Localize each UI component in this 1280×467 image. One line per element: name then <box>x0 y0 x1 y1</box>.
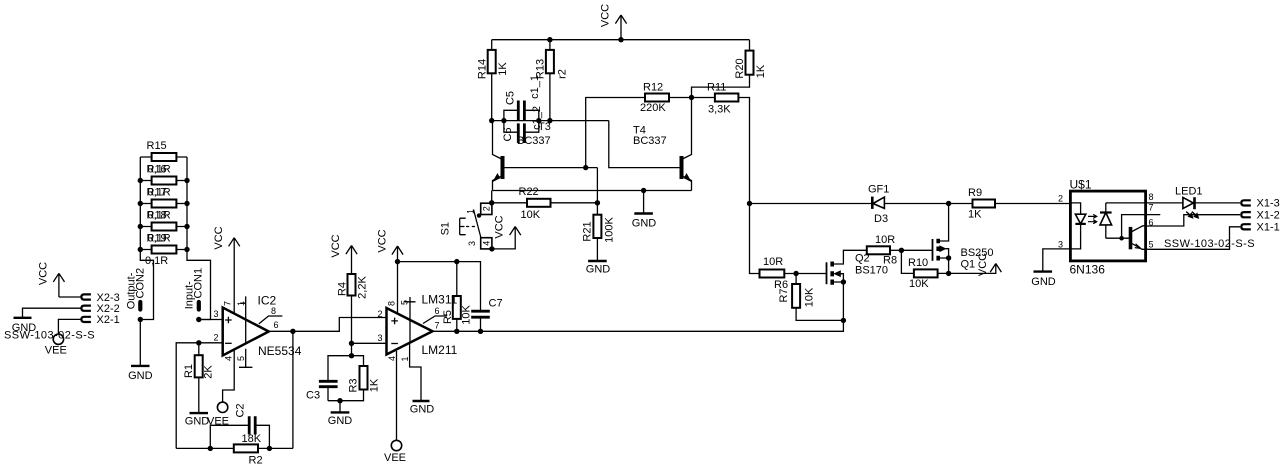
svg-text:R3: R3 <box>347 378 359 392</box>
svg-text:R7: R7 <box>778 288 790 302</box>
svg-text:Q1: Q1 <box>961 259 976 271</box>
node CON1 junction <box>196 317 201 322</box>
internal photodiode <box>1105 203 1107 238</box>
svg-text:S1: S1 <box>440 222 452 235</box>
power symbol VCC (S1) <box>492 215 521 249</box>
transistor Q2 BS170 <box>796 250 888 320</box>
svg-text:R14: R14 <box>476 59 488 79</box>
transistor T3 BC337 <box>493 121 598 191</box>
node R5 top junction <box>454 259 459 264</box>
wire X2-1 to VEE <box>58 319 81 334</box>
svg-text:7: 7 <box>435 321 440 331</box>
svg-text:r2: r2 <box>556 69 568 79</box>
svg-text:10K: 10K <box>521 209 541 221</box>
wire to C3/R3 <box>351 343 353 355</box>
svg-text:GND: GND <box>185 416 210 428</box>
svg-text:X1-2: X1-2 <box>1257 210 1280 222</box>
svg-text:X2-2: X2-2 <box>97 303 120 315</box>
node Q1 bulk junction <box>946 255 951 260</box>
capacitor C3 <box>306 356 352 402</box>
svg-text:D3: D3 <box>874 213 888 225</box>
node D3 left junction <box>747 201 752 206</box>
wire cap rail <box>492 120 609 122</box>
svg-text:1K: 1K <box>497 62 509 76</box>
node T3 collector junction <box>489 118 494 123</box>
wire LM211 -in <box>352 342 387 344</box>
svg-text:CON1: CON1 <box>193 268 205 299</box>
svg-text:18K: 18K <box>242 433 262 445</box>
svg-text:0,1R: 0,1R <box>148 163 171 175</box>
svg-text:VEE: VEE <box>45 345 67 357</box>
ground symbol GND (R1) <box>190 412 209 414</box>
node R2 left junction <box>208 446 213 451</box>
svg-text:T3: T3 <box>538 121 551 133</box>
power symbol VCC (top rail) <box>599 4 626 40</box>
svg-text:R8: R8 <box>883 255 897 267</box>
resistor R9 <box>949 187 1070 221</box>
svg-text:X2-1: X2-1 <box>97 314 120 326</box>
node C3/R3 top junction <box>349 353 354 358</box>
svg-text:GND: GND <box>632 218 657 230</box>
node IC2 output junction <box>290 329 295 334</box>
svg-text:0,1R: 0,1R <box>148 209 171 221</box>
node emitter GND junction <box>641 188 646 193</box>
wire feedback bottom rail <box>176 447 293 449</box>
svg-text:GND: GND <box>1031 276 1056 288</box>
transistor T4 BC337 <box>609 98 692 191</box>
wire ladder right rail <box>187 157 211 320</box>
svg-text:5: 5 <box>1149 239 1154 249</box>
svg-text:GND: GND <box>128 370 153 382</box>
svg-text:BC337: BC337 <box>517 135 551 147</box>
resistor R8 <box>867 234 902 267</box>
node R8/R10/Q1-gate junction <box>899 248 904 253</box>
svg-text:4: 4 <box>482 241 492 246</box>
svg-text:R10: R10 <box>908 257 928 269</box>
svg-text:8: 8 <box>387 301 397 306</box>
svg-text:C7: C7 <box>489 298 503 310</box>
supply symbol VEE (IC2 pin4) <box>217 402 227 412</box>
wire LM211 output <box>433 320 844 331</box>
svg-text:7: 7 <box>1149 202 1154 212</box>
svg-text:R21: R21 <box>581 221 593 241</box>
svg-text:0,1R: 0,1R <box>145 255 168 267</box>
svg-text:3,3K: 3,3K <box>708 104 731 116</box>
svg-text:X2-3: X2-3 <box>97 292 120 304</box>
svg-text:c1_1: c1_1 <box>529 75 541 99</box>
svg-text:SSW-103-02-S-S: SSW-103-02-S-S <box>1164 238 1255 250</box>
svg-text:4: 4 <box>224 356 234 361</box>
ground symbol GND (C3/R3) <box>331 401 350 413</box>
node Q1 top junction <box>946 201 951 206</box>
svg-text:GF1: GF1 <box>868 184 889 196</box>
wire CON2 to GND <box>139 320 141 366</box>
svg-text:10K: 10K <box>909 278 929 290</box>
svg-text:7: 7 <box>223 301 233 306</box>
resistor R5 <box>442 262 473 332</box>
wire IC2 -in <box>176 343 222 449</box>
wire top VCC rail <box>492 39 750 41</box>
wire D3 rail <box>750 203 949 205</box>
node IC2 -in junction <box>196 340 201 345</box>
resistor R21 <box>581 203 615 261</box>
svg-text:8: 8 <box>1149 192 1154 202</box>
ground symbol GND (6N136 pin3) <box>1031 249 1070 288</box>
node R13 bottom junction <box>547 118 552 123</box>
resistor R3 <box>328 356 380 401</box>
wire pin6 to X1-2 <box>1146 215 1241 226</box>
resistor R15 <box>140 140 187 161</box>
svg-text:VCC: VCC <box>977 253 989 276</box>
svg-text:100K: 100K <box>603 216 615 242</box>
wire CON1 to IC2 +in <box>199 319 222 321</box>
resistor R16 <box>140 163 187 184</box>
resistor R22 <box>492 186 598 221</box>
svg-text:C6: C6 <box>502 127 514 141</box>
connector pin X1-2 <box>1241 212 1251 217</box>
svg-text:6: 6 <box>274 320 279 330</box>
resistor R20 <box>692 40 767 98</box>
svg-text:BC337: BC337 <box>633 135 667 147</box>
svg-text:VCC: VCC <box>493 215 505 238</box>
capacitor C5 <box>504 75 541 121</box>
svg-text:LED1: LED1 <box>1175 185 1203 197</box>
transistor Q1 BS250 <box>901 204 993 274</box>
power symbol VCC (Q1) <box>949 253 1002 276</box>
svg-text:X1-1: X1-1 <box>1257 222 1280 234</box>
svg-text:SSW-103-02-S-S: SSW-103-02-S-S <box>4 330 95 342</box>
svg-text:5: 5 <box>400 300 410 305</box>
svg-text:10K: 10K <box>803 287 815 307</box>
svg-text:C2: C2 <box>234 403 246 417</box>
capacitor C6 <box>502 106 543 143</box>
resistor R10 <box>901 250 948 290</box>
svg-text:R12: R12 <box>643 82 663 94</box>
svg-text:NE5534: NE5534 <box>258 344 302 358</box>
node R4 bottom junction <box>349 341 354 346</box>
op-amp IC2 <box>213 251 301 402</box>
ground symbol GND (CON2) <box>131 365 150 367</box>
junction dots ladder <box>138 178 190 252</box>
svg-text:VCC: VCC <box>376 229 388 252</box>
resistor R1 <box>183 343 215 413</box>
svg-text:3: 3 <box>1058 239 1063 249</box>
svg-text:1K: 1K <box>755 64 767 78</box>
node Q2 source/bulk junction <box>841 279 846 284</box>
svg-text:C5: C5 <box>504 91 516 105</box>
resistor R4 <box>336 274 368 343</box>
svg-text:2: 2 <box>1058 193 1063 203</box>
svg-text:VEE: VEE <box>384 452 406 464</box>
svg-text:8: 8 <box>271 306 276 316</box>
svg-text:C3: C3 <box>306 389 320 401</box>
svg-text:U$1: U$1 <box>1070 178 1092 192</box>
power symbol VCC (R4) <box>330 234 357 274</box>
node S1/R22 junction <box>489 200 494 205</box>
wire X2-3 to VCC <box>59 296 81 298</box>
supply symbol VEE (X2-1) <box>53 334 63 344</box>
resistor R18 <box>140 209 187 230</box>
power symbol VCC (LM211 pin8) <box>376 229 403 261</box>
power symbol VCC (X2-3) <box>37 262 64 297</box>
svg-text:1K: 1K <box>368 378 380 392</box>
svg-text:10K: 10K <box>460 305 472 325</box>
svg-text:VCC: VCC <box>599 4 611 27</box>
svg-text:GND: GND <box>410 404 435 416</box>
node C7 bottom junction <box>478 329 483 334</box>
svg-text:VCC: VCC <box>213 226 225 249</box>
svg-text:220K: 220K <box>640 102 666 114</box>
internal transistor <box>1106 237 1129 239</box>
svg-text:LM211: LM211 <box>422 343 458 357</box>
node cap left junction <box>501 118 506 123</box>
svg-text:10R: 10R <box>763 256 783 268</box>
op-amp LM211 <box>377 262 457 441</box>
power symbol VCC (IC2 pin7) <box>213 226 240 251</box>
node R2 right junction <box>267 446 272 451</box>
node LM211 pin8 junction <box>395 259 400 264</box>
svg-text:3: 3 <box>377 333 382 343</box>
node R5 bottom junction <box>454 329 459 334</box>
svg-text:6: 6 <box>435 306 440 316</box>
node R6/R7 junction <box>793 271 798 276</box>
diode D3 GF1 <box>868 184 889 226</box>
optocoupler U$1 6N136 <box>1058 178 1160 277</box>
resistor R12 <box>586 82 692 168</box>
wire feedback vertical <box>292 331 294 448</box>
connector pin X1-1 <box>1241 224 1251 229</box>
svg-text:1: 1 <box>400 356 410 361</box>
switch S1 <box>440 203 492 249</box>
resistor R7 <box>778 274 844 321</box>
resistor R17 <box>140 186 187 207</box>
svg-text:R1: R1 <box>183 364 195 378</box>
svg-text:2,2K: 2,2K <box>356 276 368 299</box>
svg-text:R20: R20 <box>734 58 746 78</box>
capacitor C2 <box>210 403 269 448</box>
resistor R14 <box>476 40 509 121</box>
svg-text:GND: GND <box>328 415 353 427</box>
node cap right junction <box>536 118 541 123</box>
connector pin X1-3 <box>1241 200 1251 205</box>
resistor R11 <box>692 82 750 204</box>
svg-text:2: 2 <box>482 206 492 211</box>
node R12 tap junction <box>583 165 588 170</box>
connector pin CON2 Output- <box>126 268 147 310</box>
svg-text:10R: 10R <box>875 234 895 246</box>
svg-text:CON2: CON2 <box>134 268 146 299</box>
resistor R19 <box>140 232 187 267</box>
wire X2-2 to GND <box>23 308 82 318</box>
svg-text:R22: R22 <box>519 186 539 198</box>
node Q2 source junction <box>841 318 846 323</box>
svg-text:1: 1 <box>236 301 246 306</box>
svg-text:GND: GND <box>586 264 611 276</box>
wire pin5 to X1-1 <box>1146 227 1241 250</box>
svg-text:0,1R: 0,1R <box>148 232 171 244</box>
internal LED <box>1070 203 1080 249</box>
svg-text:3: 3 <box>467 241 477 246</box>
node R10 right junction <box>946 271 951 276</box>
svg-text:IC2: IC2 <box>258 294 277 308</box>
LED LED1 <box>1146 185 1241 218</box>
svg-text:VCC: VCC <box>330 234 342 257</box>
wire T3 base to R21 node <box>596 168 598 203</box>
resistor R2 <box>234 433 263 466</box>
supply symbol VEE (LM211 pin4) <box>391 440 401 450</box>
connector pin CON1 Input- <box>184 268 205 310</box>
resistor R13 <box>534 40 568 121</box>
capacitor C7 <box>471 298 502 332</box>
svg-text:R15: R15 <box>147 140 167 152</box>
ground symbol GND (R21) <box>588 260 607 262</box>
svg-text:R9: R9 <box>968 187 982 199</box>
svg-text:X1-3: X1-3 <box>1257 198 1280 210</box>
connector pin X2-1 <box>81 317 91 322</box>
wire VCC rail to R5/C7 <box>398 262 481 312</box>
node R13 top junction <box>547 37 552 42</box>
wire emitter rail to S1 node <box>491 191 493 203</box>
wire emitter rail <box>493 190 692 192</box>
svg-text:0,1R: 0,1R <box>148 186 171 198</box>
svg-text:2K: 2K <box>202 365 214 379</box>
node R21 top junction <box>595 200 600 205</box>
svg-text:VCC: VCC <box>37 262 49 285</box>
wire IC2 output <box>269 318 386 332</box>
svg-text:3: 3 <box>213 309 218 319</box>
svg-text:R2: R2 <box>249 454 263 466</box>
node CON2 junction <box>138 317 143 322</box>
ground symbol GND (emitters) <box>643 191 645 214</box>
svg-text:2: 2 <box>377 309 382 319</box>
node C3/R3 bottom junction <box>337 398 342 403</box>
node T4 collector junction <box>689 95 694 100</box>
connector pin X2-2 <box>81 306 91 311</box>
svg-text:2: 2 <box>213 333 218 343</box>
node S1 pin4 junction <box>489 246 494 251</box>
wire ladder left rail <box>140 157 153 320</box>
node VCC arrow junction <box>618 37 623 42</box>
svg-text:R4: R4 <box>336 282 348 296</box>
svg-text:R5: R5 <box>442 310 454 324</box>
ground symbol GND (X2-2) <box>14 317 32 319</box>
resistor R6 <box>750 204 797 292</box>
svg-text:4: 4 <box>387 356 397 361</box>
svg-text:6N136: 6N136 <box>1070 263 1106 277</box>
svg-text:5: 5 <box>236 356 246 361</box>
ground symbol GND (LM211 pin1) <box>413 400 430 402</box>
svg-text:1K: 1K <box>968 209 982 221</box>
connector pin X2-3 <box>81 294 91 299</box>
